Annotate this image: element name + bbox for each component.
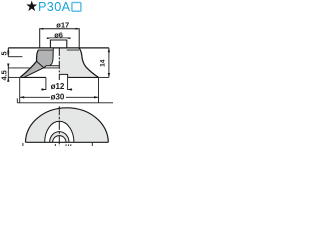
- bottom view arc4: [53, 136, 66, 143]
- svg-text:ø17: ø17: [56, 21, 69, 30]
- section view: left half section fill: [37, 48, 54, 68]
- svg-text:P30A: P30A: [38, 0, 71, 14]
- bell top junction line left: [38, 49, 53, 51]
- dimension 4.5 left: [7, 65, 9, 82]
- bottom view baseline: [26, 141, 109, 143]
- bottom view white zone inside arc2: [45, 121, 74, 142]
- svg-text:14: 14: [100, 59, 107, 67]
- bottom view centerline: [58, 106, 60, 146]
- base bottom right: [68, 76, 99, 78]
- outer profile right: [79, 48, 98, 77]
- dimension 14 right: [99, 76, 109, 78]
- plate underside white band left: [38, 48, 54, 51]
- bottom view arc2: [45, 121, 74, 142]
- svg-text:ø12: ø12: [51, 82, 65, 91]
- svg-text:ø30: ø30: [51, 92, 65, 101]
- dimension 5 left: [7, 48, 9, 57]
- cropped dimension ticks below baseline: [22, 143, 24, 146]
- plate underside white band right: [67, 48, 79, 51]
- bell top junction line right: [67, 49, 79, 51]
- outer profile left: [20, 50, 38, 77]
- hole wall: [50, 48, 53, 65]
- svg-text:★: ★: [25, 0, 38, 15]
- base bottom left: [20, 76, 46, 78]
- top surface line across (with extension to both dim lines): [8, 47, 109, 49]
- inner cavity wall: [24, 61, 44, 77]
- svg-text:4.5: 4.5: [0, 70, 9, 80]
- section view: right half shading: [59, 48, 98, 77]
- bottom view large arch outline: [26, 108, 109, 142]
- rule line under dimension: [17, 98, 113, 102]
- centerline section view: [58, 48, 60, 80]
- dimension ø30: [19, 78, 21, 103]
- bottom view arc3: [50, 132, 69, 143]
- dimension line ø17 with extension lines: [40, 29, 79, 48]
- sectioned skirt wall wedge: [20, 61, 44, 77]
- dimension ø12: [45, 78, 47, 90]
- recess step right: [59, 74, 67, 77]
- bottom view large arch fill: [26, 108, 109, 142]
- option square: [72, 3, 81, 12]
- cavity ceiling line: [44, 66, 60, 68]
- background: [0, 0, 113, 146]
- boss outline: [50, 40, 66, 48]
- bottom view gray zone inside arc3: [50, 132, 69, 143]
- dimension arrows ø6: [47, 37, 51, 39]
- svg-text:5: 5: [0, 51, 9, 55]
- bottom view white zone inside arc4: [53, 136, 66, 143]
